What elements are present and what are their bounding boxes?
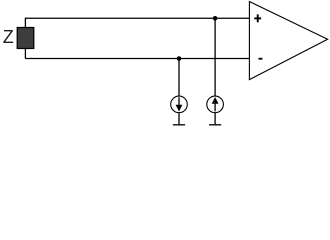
op-amp + input label — [254, 14, 261, 22]
current source I2 upward arrow — [212, 97, 219, 111]
current source I1 circle — [171, 96, 188, 113]
wire stub from I2 to ground — [214, 113, 216, 125]
ground bar under I1 — [173, 124, 185, 126]
wire vertical from node B down to current source I2 — [214, 18, 216, 96]
current source I2 circle — [207, 96, 224, 113]
impedance Z body — [17, 28, 34, 49]
node B junction dot on top rail — [213, 16, 218, 21]
current source I1 downward arrow — [176, 97, 183, 111]
wire Z component vertical lead — [24, 18, 26, 59]
ground bar under I2 — [209, 124, 221, 126]
op-amp - input label — [259, 58, 263, 60]
wire vertical from node A down to current source I1 — [178, 59, 180, 97]
wire stub from I1 to ground — [178, 113, 180, 125]
svg-text:Z: Z — [3, 27, 14, 47]
wire top rail from Z top to op-amp + input — [25, 17, 249, 19]
node A junction dot on bottom rail — [177, 56, 182, 61]
op-amp U1 triangle — [249, 2, 327, 80]
wire bottom rail from Z bottom to op-amp - input — [25, 58, 249, 60]
